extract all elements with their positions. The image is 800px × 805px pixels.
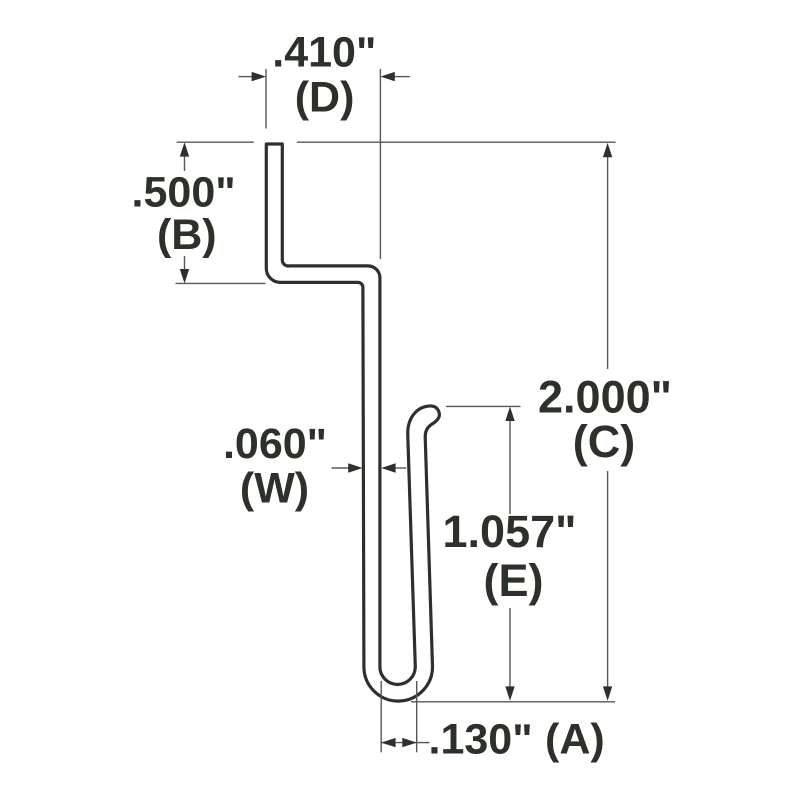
svg-text:.060": .060" <box>223 420 327 468</box>
svg-text:2.000": 2.000" <box>538 372 672 423</box>
dimension D extension line left <box>265 69 267 129</box>
svg-text:(B): (B) <box>157 211 217 259</box>
svg-text:(C): (C) <box>573 416 635 467</box>
dimension E line with arrows <box>505 407 514 701</box>
dimension W left arrow <box>332 463 363 472</box>
svg-text:(D): (D) <box>295 74 355 122</box>
dimension A extension line left <box>380 681 382 752</box>
svg-text:(W): (W) <box>240 465 309 513</box>
svg-text:.500": .500" <box>132 168 236 216</box>
svg-text:(A): (A) <box>545 716 605 764</box>
dimension B top extension line <box>177 141 254 143</box>
svg-text:(E): (E) <box>484 555 544 606</box>
dimension D left arrow <box>239 72 267 81</box>
dimension C line with arrows <box>603 143 612 701</box>
dimension E top extension line <box>446 405 521 407</box>
dimension C bottom extension line <box>411 701 615 703</box>
dimension A line with outward arrows <box>381 738 417 747</box>
dimension D extension line right <box>379 69 381 259</box>
dimension B line with arrows <box>180 142 189 283</box>
dimension A leader line <box>417 742 430 744</box>
profile outline of J-hook cross-section <box>266 144 439 701</box>
dimension D right arrow <box>380 72 409 81</box>
shared top extension line to C <box>297 141 616 143</box>
svg-text:1.057": 1.057" <box>443 506 577 557</box>
dimension W right arrow <box>381 463 406 472</box>
svg-text:.130": .130" <box>429 716 533 764</box>
svg-text:.410": .410" <box>272 28 376 76</box>
dimension A extension line right <box>416 681 418 752</box>
dimension B bottom extension line <box>176 282 266 284</box>
